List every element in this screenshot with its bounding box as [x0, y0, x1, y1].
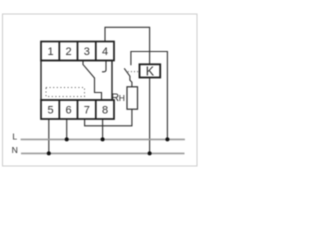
switch contact (of K): blade	[124, 68, 130, 76]
switch bottom wire to RH	[130, 76, 132, 87]
junction dot L at terminal6 wire	[65, 137, 69, 141]
device body outline	[41, 61, 112, 101]
svg-text:6: 6	[66, 104, 72, 116]
svg-text:1: 1	[48, 46, 54, 58]
svg-text:L: L	[12, 131, 17, 141]
load resistor RH	[127, 87, 138, 109]
svg-text:4: 4	[102, 46, 108, 58]
junction dot N at terminal5 wire	[47, 151, 51, 155]
svg-text:2: 2	[66, 46, 72, 58]
junction dot L at terminal8 wire	[101, 137, 105, 141]
terminal numbers 1-4	[48, 46, 109, 58]
wire from terminal 4 up to K	[105, 27, 150, 64]
fixed contact hook from terminal 4	[102, 61, 106, 72]
svg-text:5: 5	[48, 104, 54, 116]
internal coil dotted rectangle	[46, 88, 85, 97]
bottom terminal row	[41, 100, 114, 119]
wire RH bottom to terminal 7	[85, 109, 132, 126]
wire terminal 8 to L	[102, 119, 104, 139]
wire terminal 6 to L	[66, 119, 68, 139]
contactor K box	[140, 64, 161, 77]
internal relay contact blade	[83, 65, 94, 78]
svg-text:N: N	[12, 145, 18, 155]
svg-text:7: 7	[84, 104, 90, 116]
internal relay contact: stub from terminal 3	[82, 61, 84, 66]
wire terminal 5 to N	[48, 119, 50, 153]
border frame	[3, 14, 198, 166]
top terminal row	[41, 42, 114, 61]
wire K to N	[149, 78, 151, 154]
svg-text:3: 3	[84, 46, 90, 58]
N line	[21, 152, 185, 154]
junction dot N at K wire	[148, 151, 152, 155]
svg-text:H: H	[119, 93, 125, 103]
svg-text:8: 8	[102, 104, 108, 116]
junction dot L at bracket wire	[165, 137, 169, 141]
internal contact tail to terminal 8	[95, 78, 102, 101]
mechanical link dotted to K	[128, 71, 140, 73]
L line	[21, 138, 185, 140]
wire bracket over switch and K	[131, 52, 168, 140]
svg-text:K: K	[146, 65, 155, 79]
terminal numbers 5-8	[48, 104, 109, 116]
